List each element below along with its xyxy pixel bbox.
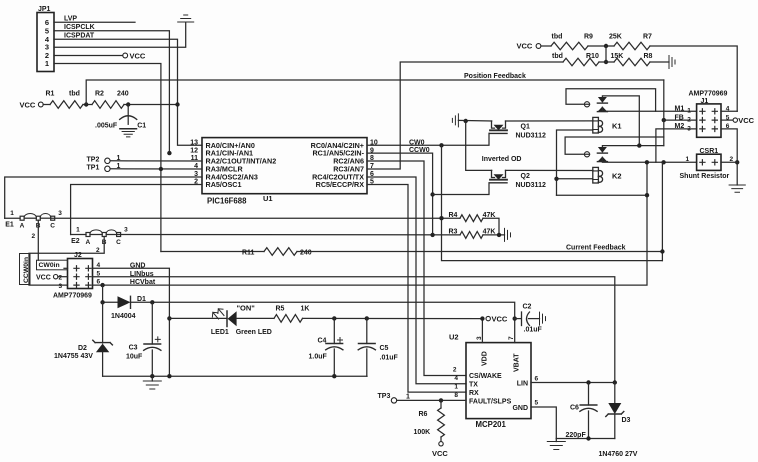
transistor Q2 NUD3112 bbox=[492, 170, 495, 177]
wire JP1 pin6 LVP bbox=[54, 21, 135, 23]
svg-text:4: 4 bbox=[454, 375, 458, 382]
resistor R10 tbd bbox=[563, 58, 599, 66]
wire LIN to bus bbox=[531, 382, 615, 384]
svg-text:R7: R7 bbox=[643, 34, 652, 41]
wire TP1 to U1 pin4 MCLR bbox=[110, 168, 202, 170]
node R1-R2 junction (position feedback tap) bbox=[84, 102, 88, 106]
ground below C1 bbox=[122, 132, 134, 137]
svg-text:Q2: Q2 bbox=[521, 173, 530, 180]
node R2 right junction bbox=[175, 102, 179, 106]
svg-text:K2: K2 bbox=[612, 172, 622, 181]
capacitor C1 .005uF bbox=[127, 105, 129, 125]
wire K1 NC contact to link bbox=[602, 96, 639, 146]
wire VCC to R1 bbox=[43, 104, 50, 106]
wire position feedback from R1-R2 node up bbox=[86, 80, 664, 105]
wire AN7 feedback to R10 bbox=[367, 62, 563, 169]
ground sideways left of Q1 bbox=[452, 114, 458, 127]
svg-text:GND: GND bbox=[512, 405, 528, 412]
svg-text:A: A bbox=[20, 223, 25, 230]
svg-text:VCC: VCC bbox=[432, 449, 448, 458]
resistor R9 tbd bbox=[551, 42, 588, 50]
svg-text:CS/WAKE: CS/WAKE bbox=[469, 373, 502, 380]
svg-text:C: C bbox=[116, 239, 121, 246]
wire K1 common to J1 M1 bbox=[566, 89, 697, 112]
zener D3 1N4760 27V bbox=[614, 383, 616, 404]
svg-text:2: 2 bbox=[59, 274, 63, 281]
wire R1 to R2 bbox=[83, 104, 92, 106]
wire M2 to shunt row bbox=[656, 129, 697, 162]
svg-text:LIN: LIN bbox=[517, 380, 528, 387]
node coil return HCVbat junction bbox=[645, 193, 649, 197]
svg-text:6: 6 bbox=[535, 376, 539, 383]
wire FB to position feedback bbox=[664, 119, 697, 121]
svg-text:240: 240 bbox=[117, 91, 129, 98]
svg-text:4: 4 bbox=[97, 262, 101, 269]
svg-text:E2: E2 bbox=[71, 238, 80, 245]
resistor R8 15K bbox=[614, 58, 650, 66]
svg-text:15K: 15K bbox=[611, 53, 624, 60]
connector J2 AMP770969 bbox=[68, 259, 93, 289]
ground top bbox=[178, 15, 194, 22]
node shunt row junction right bbox=[661, 160, 665, 164]
node R6 junction bbox=[439, 398, 443, 402]
wire LED to R5 bbox=[237, 317, 274, 319]
resistor R1 tbd bbox=[50, 101, 83, 109]
svg-text:R5: R5 bbox=[276, 306, 285, 313]
node C6 ground junction bbox=[586, 436, 590, 440]
svg-text:R4: R4 bbox=[449, 212, 458, 219]
svg-text:100K: 100K bbox=[414, 429, 431, 436]
svg-text:C5: C5 bbox=[380, 345, 389, 352]
svg-text:25K: 25K bbox=[609, 34, 622, 41]
node K1/K2 NC junction bbox=[637, 143, 641, 147]
relay K2 contact bbox=[584, 152, 589, 157]
svg-text:6: 6 bbox=[97, 279, 101, 286]
svg-text:.005uF: .005uF bbox=[95, 122, 118, 129]
relay K1 contact bbox=[584, 102, 589, 107]
svg-text:1N4004: 1N4004 bbox=[111, 313, 136, 320]
wire R8 to ground bbox=[650, 61, 669, 63]
svg-text:VCC: VCC bbox=[130, 52, 146, 61]
wire K1 coil return bbox=[557, 130, 593, 195]
capacitor C2 .01uF bbox=[515, 318, 521, 320]
node U1 pin12 junction bbox=[167, 151, 171, 155]
ground sideways right of R3 bbox=[505, 228, 511, 241]
svg-text:CCW0: CCW0 bbox=[409, 147, 430, 154]
wire E1 pin2 down to J2 pin1 CW0in bbox=[37, 220, 39, 260]
svg-text:2: 2 bbox=[32, 233, 36, 240]
svg-text:PIC16F688: PIC16F688 bbox=[207, 197, 247, 206]
svg-text:240: 240 bbox=[300, 249, 312, 256]
svg-text:3: 3 bbox=[59, 283, 63, 290]
wire R5 to VCC node rail bbox=[303, 317, 483, 319]
svg-text:1: 1 bbox=[687, 108, 691, 115]
wire coil return to HCVbat vertical bbox=[557, 194, 648, 196]
svg-text:CW0: CW0 bbox=[409, 139, 425, 146]
svg-text:Shunt Resistor: Shunt Resistor bbox=[680, 173, 730, 180]
svg-text:.01uF: .01uF bbox=[380, 355, 399, 362]
svg-text:RA5/OSC1: RA5/OSC1 bbox=[206, 180, 242, 189]
wire U1 pin6 TX to U2 TX bbox=[367, 177, 466, 384]
svg-text:JP1: JP1 bbox=[38, 6, 51, 13]
svg-text:1N4755 43V: 1N4755 43V bbox=[54, 353, 93, 360]
svg-text:GND: GND bbox=[130, 262, 146, 269]
power VCC at JP1 pin2 bbox=[123, 53, 128, 58]
ground sideways right of R8 bbox=[669, 56, 675, 69]
svg-text:1: 1 bbox=[454, 384, 458, 391]
svg-text:HCVbat: HCVbat bbox=[130, 279, 156, 286]
svg-text:tbd: tbd bbox=[69, 91, 80, 98]
wire U1 pin8 to U2 CS/WAKE bbox=[367, 161, 466, 376]
svg-text:TP3: TP3 bbox=[378, 393, 391, 400]
wire current feedback vertical bbox=[661, 162, 663, 260]
node Q1 source junction bbox=[464, 119, 468, 123]
svg-text:1: 1 bbox=[10, 210, 14, 217]
node VBAT junction bbox=[513, 316, 517, 320]
wire JP1 pin2 to VCC bbox=[54, 55, 123, 57]
net label CCW0in bbox=[20, 254, 31, 285]
svg-text:CW0in: CW0in bbox=[39, 262, 60, 269]
svg-text:tbd: tbd bbox=[552, 53, 563, 60]
resistor R3 47K bbox=[460, 232, 483, 239]
wire Q1/Q2 source link bbox=[466, 121, 492, 170]
svg-text:A: A bbox=[86, 239, 91, 246]
capacitor C5 .01uF bbox=[366, 318, 368, 343]
svg-text:NUD3112: NUD3112 bbox=[516, 182, 546, 189]
wire Q1 drain to K1 coil bbox=[506, 120, 594, 122]
wire E2 pin1 lead bbox=[71, 234, 86, 236]
svg-text:2: 2 bbox=[453, 367, 457, 374]
ground sideways right of C2 bbox=[540, 312, 546, 325]
svg-text:1: 1 bbox=[686, 156, 690, 163]
wire position feedback vertical at J1 bbox=[663, 80, 665, 146]
ground below U2 GND bbox=[555, 439, 557, 442]
svg-text:C3: C3 bbox=[129, 345, 138, 352]
wire U1 pin5 RX to U2 RX bbox=[367, 185, 466, 393]
wire E1 pin3 to R4 bbox=[51, 217, 460, 219]
wire R2 to C1 node and ICSPDAT vertical bbox=[124, 104, 178, 106]
svg-text:1N4760 27V: 1N4760 27V bbox=[599, 451, 638, 458]
ic U1 PIC16F688 bbox=[202, 138, 367, 194]
svg-text:10uF: 10uF bbox=[126, 353, 143, 360]
net label CW0in at J2 pin1 bbox=[37, 260, 68, 270]
transistor Q1 NUD3112 bbox=[492, 121, 495, 128]
svg-text:C: C bbox=[50, 223, 55, 230]
svg-text:NUD3112: NUD3112 bbox=[516, 133, 546, 140]
svg-text:E1: E1 bbox=[5, 222, 14, 229]
wire K2 NO contact to shunt row bbox=[602, 157, 696, 162]
svg-text:.01uF: .01uF bbox=[524, 327, 543, 334]
node current feedback row junction bbox=[660, 249, 664, 253]
svg-text:RC5/ECCP/RX: RC5/ECCP/RX bbox=[316, 180, 365, 189]
node C4 junction bbox=[332, 316, 336, 320]
node shunt row junction left bbox=[645, 160, 649, 164]
wire R9 to R7 bbox=[588, 45, 614, 47]
relay K2 coil bbox=[593, 167, 599, 183]
svg-text:R9: R9 bbox=[584, 34, 593, 41]
svg-text:Current Feedback: Current Feedback bbox=[566, 245, 626, 252]
wire JP1 pin3 to ground bbox=[54, 23, 186, 48]
svg-text:1: 1 bbox=[76, 226, 80, 233]
wire E1 pin1 lead bbox=[5, 217, 20, 219]
wire CW0 down to R4 and lower bus bbox=[442, 145, 663, 260]
svg-text:K1: K1 bbox=[612, 122, 622, 131]
wire JP1 pin1 down to MCLR node and R11 bbox=[54, 64, 161, 252]
svg-text:1: 1 bbox=[45, 59, 49, 68]
svg-text:LED1: LED1 bbox=[211, 329, 229, 336]
wire U1 pin2 RA5 to E2 pin1 bbox=[71, 185, 202, 235]
svg-text:R2: R2 bbox=[95, 91, 104, 98]
node LIN C6 junction bbox=[586, 380, 590, 384]
node CSR1 pin2 junction bbox=[735, 160, 739, 164]
ground rail bottom-left bbox=[103, 375, 367, 377]
wire LED row from GND vertical bbox=[169, 317, 227, 319]
node C1 tap bbox=[126, 102, 130, 106]
svg-text:1: 1 bbox=[406, 394, 410, 401]
wire R4 to ground via R3 row bbox=[483, 218, 499, 235]
svg-text:5: 5 bbox=[97, 270, 101, 277]
svg-text:VCC: VCC bbox=[20, 101, 36, 110]
wire E2 internal bbox=[90, 234, 102, 236]
svg-text:1.0uF: 1.0uF bbox=[309, 354, 328, 361]
svg-text:LVP: LVP bbox=[64, 16, 77, 23]
wire ground to Q1 source bbox=[458, 119, 491, 122]
wire MCLR node to R11 bbox=[161, 251, 264, 253]
svg-text:3: 3 bbox=[58, 210, 62, 217]
svg-text:U2: U2 bbox=[449, 333, 459, 342]
wire bottom ground rail right bbox=[556, 438, 615, 440]
wire JP1 pin5 ICSPCLK to U1 pin12 bbox=[54, 31, 169, 153]
svg-text:MCP201: MCP201 bbox=[476, 420, 507, 429]
svg-text:VCC: VCC bbox=[36, 275, 51, 282]
svg-text:C2: C2 bbox=[523, 304, 532, 311]
node LIN D3 junction bbox=[613, 380, 617, 384]
node D2 anode junction bbox=[100, 300, 104, 304]
resistor R2 240 bbox=[92, 101, 124, 109]
node CCW0-R3 junction bbox=[430, 233, 434, 237]
wire CW0 from U1 pin10 to Q1 gate bbox=[367, 133, 489, 145]
wire U2 GND to ground bbox=[531, 407, 556, 439]
node GND vertical junction bbox=[167, 374, 171, 378]
capacitor C3 10uF bbox=[151, 302, 153, 344]
svg-text:LINbus: LINbus bbox=[130, 271, 154, 278]
svg-text:J2: J2 bbox=[74, 252, 82, 259]
node VDD junction bbox=[480, 316, 484, 320]
wire divider junction link bbox=[605, 46, 607, 62]
node MCLR junction bbox=[159, 167, 163, 171]
svg-text:D3: D3 bbox=[622, 417, 631, 424]
wire U1 pin3 RA4 to E1 pin1 bbox=[5, 177, 202, 218]
node CW0-R4 junction bbox=[439, 216, 443, 220]
wire CSR1 pin2 to ground vertical bbox=[721, 161, 737, 163]
svg-text:R8: R8 bbox=[644, 53, 653, 60]
svg-text:D2: D2 bbox=[78, 345, 87, 352]
node FB junction bbox=[662, 118, 666, 122]
svg-text:1K: 1K bbox=[301, 306, 310, 313]
svg-text:RX: RX bbox=[469, 390, 479, 397]
svg-text:VDD: VDD bbox=[482, 351, 489, 366]
svg-text:ICSPCLK: ICSPCLK bbox=[64, 24, 95, 31]
wire Q2 drain to K2 coil bbox=[506, 169, 594, 171]
wire TP2 to U1 pin11 bbox=[110, 160, 202, 162]
diode D1 1N4004 bbox=[103, 301, 118, 303]
resistor R5 1K bbox=[274, 315, 303, 323]
node R10-R8 junction bbox=[604, 60, 608, 64]
svg-text:U1: U1 bbox=[263, 194, 273, 203]
wire R10 to R8 bbox=[599, 61, 614, 63]
svg-text:R6: R6 bbox=[419, 411, 428, 418]
wire CCW0 from U1 pin9 bbox=[367, 153, 433, 235]
wire D1 cathode to C3 and VCC rail bbox=[131, 302, 515, 318]
svg-text:AMP770969: AMP770969 bbox=[53, 293, 92, 300]
power VCC above U2 bbox=[486, 316, 490, 320]
svg-text:5: 5 bbox=[535, 400, 539, 407]
svg-text:R11: R11 bbox=[242, 249, 255, 256]
node GND to LED tap bbox=[167, 316, 171, 320]
svg-text:ICSPDAT: ICSPDAT bbox=[64, 33, 95, 40]
zener D2 1N4755 43V bbox=[102, 302, 104, 343]
node R9-R7 junction bbox=[604, 44, 608, 48]
node CCW0 gate junction bbox=[430, 192, 434, 196]
wire E2 pin2 down and across to J2 pin3 CCW0in bbox=[29, 237, 104, 286]
J2 pin4 GND wire bbox=[93, 268, 170, 376]
node CW0 junction bbox=[439, 143, 443, 147]
ground symbol below rail bbox=[151, 376, 153, 381]
svg-text:AMP770969: AMP770969 bbox=[689, 91, 728, 98]
svg-text:CCW0in: CCW0in bbox=[23, 257, 30, 283]
wire CCW0 to Q2 gate bbox=[433, 183, 489, 195]
svg-text:C1: C1 bbox=[137, 122, 146, 129]
wire K2 common to FB vertical bbox=[565, 137, 664, 154]
connector JP1 bbox=[37, 13, 54, 72]
node C5 junction bbox=[365, 316, 369, 320]
svg-text:C4: C4 bbox=[318, 338, 327, 345]
node coil return junction bbox=[554, 177, 558, 181]
resistor R6 100K bbox=[440, 400, 442, 408]
resistor R4 47K bbox=[460, 215, 483, 222]
wire E1 internal bbox=[24, 217, 36, 219]
svg-text:R10: R10 bbox=[586, 53, 599, 60]
svg-text:R1: R1 bbox=[46, 91, 55, 98]
svg-text:3: 3 bbox=[476, 336, 483, 340]
wire JP1 pin4 ICSPDAT to R2 node and U1 pin13 bbox=[54, 39, 202, 145]
wire E2 pin3 to R3 bbox=[117, 234, 460, 236]
svg-text:VCC: VCC bbox=[738, 116, 754, 125]
led LED1 Green LED bbox=[226, 311, 228, 327]
wire K2 coil return bbox=[557, 178, 593, 180]
svg-text:tbd: tbd bbox=[552, 34, 563, 41]
svg-text:TP2: TP2 bbox=[87, 157, 100, 164]
resistor R7 25K bbox=[614, 42, 650, 50]
svg-text:FAULT/SLPS: FAULT/SLPS bbox=[469, 398, 512, 405]
wire R3 to ground bbox=[483, 234, 505, 236]
svg-text:TX: TX bbox=[469, 382, 478, 389]
wire current feedback R11 to CSR1 vertical bbox=[297, 251, 662, 253]
node HCVbat to D1 tap bbox=[100, 283, 104, 287]
node C4 ground junction bbox=[332, 374, 336, 378]
node C3 ground junction bbox=[150, 374, 154, 378]
svg-text:"ON": "ON" bbox=[237, 303, 256, 312]
svg-text:Green LED: Green LED bbox=[236, 329, 272, 336]
J2 pin6 HCVbat wire bbox=[93, 162, 648, 285]
svg-text:M1: M1 bbox=[675, 106, 685, 113]
svg-text:VCC: VCC bbox=[517, 42, 533, 51]
wire R7 to J1 pin4 bbox=[650, 46, 737, 111]
relay K1 coil bbox=[593, 117, 599, 133]
wire K1 NO contact to M1 row bbox=[602, 107, 655, 111]
svg-text:8: 8 bbox=[454, 392, 458, 399]
svg-text:VBAT: VBAT bbox=[514, 353, 521, 372]
svg-text:Position Feedback: Position Feedback bbox=[464, 73, 526, 80]
wire K2 NC contact to link row bbox=[602, 146, 663, 147]
capacitor C4 1.0uF bbox=[333, 318, 335, 343]
capacitor C6 220pF bbox=[588, 383, 590, 406]
wire VCC to R9 bbox=[541, 45, 551, 47]
ground below J1 pin6 bbox=[729, 185, 745, 192]
svg-text:Inverted OD: Inverted OD bbox=[482, 156, 522, 163]
J2 pin5 LINbus wire to U2 LIN bbox=[93, 277, 615, 383]
svg-text:13: 13 bbox=[190, 140, 198, 147]
svg-text:TP1: TP1 bbox=[87, 164, 100, 171]
svg-text:7: 7 bbox=[508, 336, 515, 340]
svg-text:Q1: Q1 bbox=[521, 124, 530, 131]
svg-text:VCC: VCC bbox=[492, 314, 508, 323]
svg-text:3: 3 bbox=[124, 226, 128, 233]
node D1-C3 junction bbox=[150, 300, 154, 304]
wire TP3 to FAULT/SLPS bbox=[397, 399, 466, 401]
wire HCVbat down to D1 anode bbox=[102, 285, 104, 302]
resistor R11 240 bbox=[264, 248, 297, 256]
svg-text:12: 12 bbox=[190, 147, 198, 154]
power VCC below R6 bbox=[439, 442, 443, 446]
ic U2 MCP201 bbox=[466, 343, 531, 419]
svg-text:C6: C6 bbox=[570, 405, 579, 412]
svg-text:R3: R3 bbox=[449, 229, 458, 236]
node R3-R4 ground junction bbox=[497, 233, 501, 237]
